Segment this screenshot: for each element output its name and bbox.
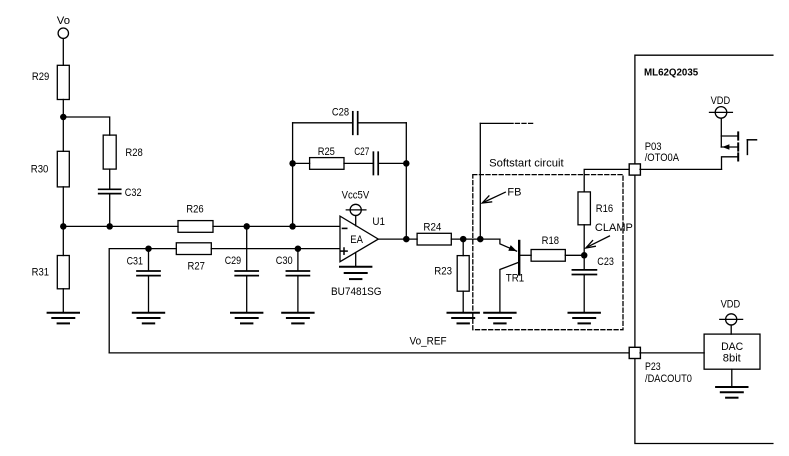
wire R25 to C27 [344,162,373,164]
wire C27 right [378,162,406,164]
junction node A [60,114,67,121]
wire C29 stem [246,226,248,270]
svg-text:R23: R23 [434,265,452,277]
resistor R27 [176,243,211,255]
MOSFET body arrow [721,146,738,148]
svg-text:C28: C28 [332,107,349,119]
wire R28 to C32 [109,169,111,188]
svg-text:EA: EA [350,234,363,246]
wire R30 to node B [62,187,64,227]
pin P23 square [629,347,640,358]
svg-text:Softstart circuit: Softstart circuit [489,157,564,169]
transistor TR1 collector lead [500,262,519,312]
resistor R31 [57,256,69,289]
wire VDD to DAC [730,325,732,334]
svg-text:R26: R26 [186,203,203,215]
svg-text:Vcc5V: Vcc5V [342,190,370,202]
capacitor C27 [372,152,374,174]
resistor R18 [531,250,565,262]
wire FB vertical [479,123,481,239]
junction C31 tap [145,245,152,252]
svg-text:BU7481SG: BU7481SG [331,286,382,298]
resistor R23 [457,256,469,292]
wire C31 stem [148,249,150,271]
wire DAC to ground [731,369,733,387]
FB label arrow [483,192,505,202]
junction C29 tap [243,223,250,230]
transistor TR1 bar [518,241,520,274]
wire C28 left [293,122,353,124]
svg-text:C30: C30 [276,255,293,267]
wire op-amp output [378,238,417,240]
svg-text:C31: C31 [127,256,143,268]
ground under TR1 [484,313,515,324]
wire Vo to R29 [62,39,64,66]
svg-text:C23: C23 [597,256,614,268]
svg-text:U1: U1 [372,216,385,228]
junction CLAMP node [581,252,588,258]
resistor R24 [417,233,451,245]
wire C28 right [358,122,407,124]
MOSFET channel bar [737,132,739,160]
wire P23 to DAC [640,352,704,354]
power Vcc5V terminal [350,204,361,215]
wire R24 to FB node [451,238,500,240]
wire feedback left branch [292,123,294,227]
wire R25 left [293,162,310,164]
svg-text:VDD: VDD [721,299,741,311]
junction C30 tap [295,245,302,252]
wire C29 to ground [246,276,248,312]
wire node A to R30 [62,117,64,151]
wire P03 to MOSFET drain [640,168,722,170]
op-amp plus sign [341,250,347,252]
svg-text:FB: FB [507,187,521,199]
capacitor C30 [286,270,309,272]
resistor R29 [57,65,69,99]
transistor TR1 emitter arrow [508,245,517,251]
transistor TR1 base lead [520,254,531,256]
svg-text:TR1: TR1 [506,273,524,285]
wire upper net node B to R26 [63,225,178,227]
resistor R25 [310,158,344,170]
node Vo terminal circle [58,28,68,38]
svg-text:Vo: Vo [57,15,70,27]
resistor R30 [57,151,69,187]
wire VDD to MOSFET source [720,118,722,147]
wire C31 to ground [148,276,150,312]
wire lower net corner to R27 [109,249,176,353]
power VDD terminal top [715,107,727,119]
capacitor C23 [572,269,596,271]
wire R27 to op-amp plus input [211,248,340,250]
ground under DAC [716,387,747,398]
wire R31 to ground [62,289,64,313]
svg-text:/DACOUT0: /DACOUT0 [645,373,692,385]
svg-text:R16: R16 [596,203,613,215]
CLAMP label arrow [587,236,610,247]
wire R23 to ground [462,291,464,313]
MOSFET gate [746,140,748,155]
pin P03 square [629,164,640,175]
capacitor C28 [352,112,354,135]
DAC 8bit block [704,334,760,369]
junction feedback right middle [403,160,410,167]
wire C30 to ground [297,276,299,312]
softstart dashed box [473,175,623,330]
wire Vo_REF [109,352,630,354]
ground under C23 [569,313,600,324]
wire C32 to node B [109,194,111,226]
svg-text:R27: R27 [188,260,205,272]
wire FB dashed continuation [515,122,534,124]
wire node B to R31 [62,226,64,255]
capacitor C29 [235,270,258,272]
svg-text:C29: C29 [225,255,241,267]
transistor TR1 emitter lead [500,239,517,251]
capacitor C31 [137,270,160,272]
MOSFET source stub [721,135,738,137]
resistor R16 [578,192,590,225]
MOSFET drain lead [722,157,739,170]
junction node B left [60,223,67,230]
svg-text:DAC: DAC [721,341,743,353]
op-amp U1 triangle [340,216,378,262]
ground under op-amp [340,267,371,279]
svg-text:8bit: 8bit [723,353,741,365]
resistor R26 [178,221,213,233]
svg-text:R18: R18 [542,235,559,247]
wire feedback right branch [405,123,407,239]
ground under C30 [282,313,313,324]
svg-text:R30: R30 [31,164,49,176]
wire C23 stem [583,255,585,269]
svg-text:C32: C32 [125,187,142,199]
svg-text:/OTO0A: /OTO0A [645,152,680,164]
ground under C29 [231,313,262,324]
svg-text:VDD: VDD [711,95,731,107]
svg-text:R28: R28 [125,147,142,159]
junction node B at C32 [106,223,113,230]
junction R23 tap [460,236,467,243]
svg-text:R25: R25 [318,146,335,158]
wire R16 top [584,169,629,192]
svg-text:R31: R31 [32,267,49,279]
IC block ML62Q2035 outline [635,55,773,443]
svg-text:P23: P23 [645,361,661,373]
junction output node [403,236,410,243]
power VDD terminal at DAC [726,314,737,325]
junction FB node [477,236,484,243]
svg-text:R29: R29 [32,71,49,83]
svg-text:P03: P03 [645,141,662,153]
wire op-amp to ground [355,253,357,267]
wire node A to R28 branch [63,117,109,135]
wire Vcc to op-amp [355,216,357,226]
svg-text:CLAMP: CLAMP [595,222,633,234]
wire FB top horizontal [480,122,513,124]
svg-text:ML62Q2035: ML62Q2035 [644,67,698,79]
junction feedback left middle [289,160,296,167]
junction feedback tap [289,223,296,230]
wire R23 stem [462,239,464,256]
wire C23 to ground [583,275,585,312]
ground under R23 [448,313,479,324]
svg-text:Vo_REF: Vo_REF [410,336,447,348]
wire C30 stem [297,249,299,271]
wire R16 to CLAMP node [583,225,585,256]
resistor R28 [103,135,116,169]
op-amp minus sign [343,227,347,229]
wire R26 to op-amp minus input [213,225,340,227]
wire R18 to CLAMP node [565,254,584,256]
svg-text:C27: C27 [354,146,369,158]
svg-text:R24: R24 [423,221,441,233]
wire R29 to node A [62,100,64,118]
ground under R31 [48,313,79,324]
ground under C31 [133,313,164,324]
capacitor C32 [99,188,121,190]
